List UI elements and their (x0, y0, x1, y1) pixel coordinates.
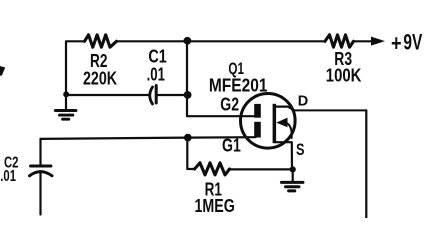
svg-text:9V: 9V (403, 29, 422, 54)
wire drain to rail (294, 109, 366, 111)
wire top rail (117, 40, 326, 42)
wire down to R1 (187, 138, 194, 169)
capacitor C1 (150, 87, 153, 104)
node junction top rail (184, 37, 192, 45)
svg-text:G1: G1 (222, 136, 241, 156)
wire right vertical (365, 110, 367, 218)
node junction G1 wire (184, 134, 192, 142)
wire to supply arrow (354, 40, 373, 42)
wire C2 top (39, 139, 41, 164)
node junction C1 right (184, 91, 192, 99)
svg-text:C1: C1 (148, 47, 166, 67)
svg-text:MFE201: MFE201 (209, 76, 268, 96)
svg-text:1MEG: 1MEG (195, 196, 235, 216)
svg-text:220K: 220K (83, 69, 117, 89)
svg-text:G2: G2 (220, 95, 239, 115)
svg-text:100K: 100K (326, 66, 362, 86)
mark 7 left edge (0, 66, 5, 76)
wire G1 long horizontal (41, 137, 256, 139)
svg-text:+: + (391, 30, 402, 56)
wire C1 left (66, 94, 150, 96)
resistor R2 (85, 35, 117, 47)
wire C1 right (157, 94, 187, 96)
ground left (65, 95, 67, 110)
wire rail to G2 (187, 41, 256, 116)
svg-text:.01: .01 (0, 168, 16, 185)
node junction S (290, 166, 296, 172)
capacitor C2 (31, 165, 52, 168)
ground right (292, 169, 294, 181)
resistor R3 (325, 35, 354, 47)
svg-text:.01: .01 (147, 65, 165, 85)
svg-text:S: S (296, 141, 305, 159)
wire R1 to S (230, 168, 293, 170)
node junction left (63, 91, 69, 97)
svg-text:D: D (298, 94, 308, 110)
wire left vertical + top-left corner (66, 41, 85, 95)
wire C2 bottom (39, 173, 41, 215)
arrow supply head (371, 37, 385, 46)
resistor R1 (195, 163, 230, 175)
transistor Q1 MFE201 (240, 94, 295, 170)
